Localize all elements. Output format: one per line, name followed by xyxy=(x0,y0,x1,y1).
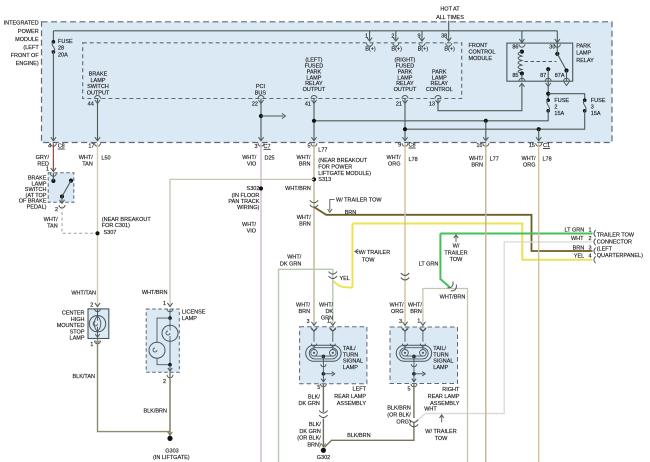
svg-text:87A: 87A xyxy=(555,73,565,79)
svg-text:TAIL/: TAIL/ xyxy=(343,346,356,352)
svg-text:BRN: BRN xyxy=(298,309,310,315)
svg-text:G302: G302 xyxy=(317,455,330,461)
svg-text:TOW: TOW xyxy=(362,257,376,263)
svg-text:(LEFT: (LEFT xyxy=(597,246,613,252)
svg-text:STOP: STOP xyxy=(70,329,85,335)
svg-text:WHT/: WHT/ xyxy=(386,155,401,161)
svg-text:WHT/: WHT/ xyxy=(297,215,312,221)
svg-text:POWER: POWER xyxy=(18,29,39,35)
svg-text:(NEAR BREAKOUT: (NEAR BREAKOUT xyxy=(318,158,368,164)
svg-text:CONTROL: CONTROL xyxy=(426,87,453,93)
svg-text:2: 2 xyxy=(588,236,591,242)
svg-text:LAMP: LAMP xyxy=(433,365,448,371)
svg-text:(OR BLK/: (OR BLK/ xyxy=(387,412,411,418)
svg-text:WHT/TAN: WHT/TAN xyxy=(71,290,96,296)
svg-text:S313: S313 xyxy=(318,177,331,183)
svg-text:BUS: BUS xyxy=(255,90,267,96)
svg-text:W/ TRAILER: W/ TRAILER xyxy=(425,429,456,435)
svg-text:YEL: YEL xyxy=(340,276,350,282)
svg-text:1: 1 xyxy=(163,301,166,307)
svg-text:L77: L77 xyxy=(318,147,327,153)
svg-text:9: 9 xyxy=(418,33,421,39)
svg-text:WHT/: WHT/ xyxy=(521,156,536,162)
svg-text:ORG: ORG xyxy=(523,162,536,168)
svg-text:WHT: WHT xyxy=(424,406,437,412)
svg-text:GRY/: GRY/ xyxy=(36,155,50,161)
svg-text:W/ TRAILER TOW: W/ TRAILER TOW xyxy=(336,198,382,204)
svg-text:1: 1 xyxy=(417,319,420,325)
svg-text:B(+): B(+) xyxy=(418,46,429,52)
svg-text:4: 4 xyxy=(48,143,51,149)
svg-text:15: 15 xyxy=(529,143,535,149)
svg-text:ORG): ORG) xyxy=(396,419,411,425)
svg-text:WHT/: WHT/ xyxy=(408,302,423,308)
svg-text:20A: 20A xyxy=(58,52,68,58)
svg-text:D25: D25 xyxy=(265,155,275,161)
svg-text:CONTROL: CONTROL xyxy=(469,50,496,56)
svg-text:LIFTGATE MODULE): LIFTGATE MODULE) xyxy=(318,171,371,177)
svg-text:BRN: BRN xyxy=(345,210,357,216)
svg-text:BRN: BRN xyxy=(410,309,422,315)
svg-text:16: 16 xyxy=(476,143,482,149)
svg-text:W/: W/ xyxy=(453,244,460,250)
svg-text:TURN: TURN xyxy=(343,352,358,358)
svg-text:L50: L50 xyxy=(101,155,110,161)
svg-text:VIO: VIO xyxy=(247,161,257,167)
svg-text:2: 2 xyxy=(55,207,58,213)
svg-text:3: 3 xyxy=(306,319,309,325)
svg-text:3: 3 xyxy=(588,246,591,252)
svg-text:TRAILER: TRAILER xyxy=(444,250,467,256)
svg-text:LAMP: LAMP xyxy=(182,316,197,322)
svg-text:5: 5 xyxy=(307,143,310,149)
svg-text:PEDAL): PEDAL) xyxy=(27,204,47,210)
svg-text:44: 44 xyxy=(88,101,94,107)
svg-text:RIGHT: RIGHT xyxy=(442,387,460,393)
svg-text:REAR LAMP: REAR LAMP xyxy=(428,394,460,400)
svg-text:15A: 15A xyxy=(591,111,601,117)
svg-text:(IN LIFTGATE): (IN LIFTGATE) xyxy=(153,455,190,461)
svg-text:CENTER: CENTER xyxy=(62,310,85,316)
svg-text:TOW: TOW xyxy=(450,257,464,263)
svg-text:3: 3 xyxy=(591,104,594,110)
svg-text:BRN: BRN xyxy=(299,222,311,228)
svg-text:B(+): B(+) xyxy=(391,46,402,52)
svg-text:FUSE: FUSE xyxy=(591,98,606,104)
svg-text:L78: L78 xyxy=(409,157,418,163)
svg-text:BRN): BRN) xyxy=(307,442,321,448)
svg-text:PAN TRACK: PAN TRACK xyxy=(228,199,259,205)
svg-text:FOR C301): FOR C301) xyxy=(102,223,130,229)
svg-text:38: 38 xyxy=(441,33,447,39)
svg-text:LAMP: LAMP xyxy=(91,78,106,84)
svg-text:1: 1 xyxy=(588,227,591,233)
svg-text:PARK: PARK xyxy=(576,43,591,49)
svg-text:LEFT: LEFT xyxy=(353,387,367,393)
svg-text:S307: S307 xyxy=(104,230,117,236)
svg-text:4: 4 xyxy=(588,254,591,260)
svg-text:(IN FLOOR: (IN FLOOR xyxy=(232,193,260,199)
svg-text:WHT/BRN: WHT/BRN xyxy=(142,290,168,296)
svg-text:86: 86 xyxy=(512,45,518,51)
svg-text:SIGNAL: SIGNAL xyxy=(343,359,363,365)
svg-text:5: 5 xyxy=(317,385,320,391)
svg-text:W/ TRAILER: W/ TRAILER xyxy=(359,250,390,256)
svg-text:MODULE: MODULE xyxy=(469,56,493,62)
svg-text:ORG: ORG xyxy=(391,309,404,315)
svg-text:BLK/TAN: BLK/TAN xyxy=(72,374,95,380)
svg-text:2: 2 xyxy=(554,104,557,110)
svg-text:(OR BLK/: (OR BLK/ xyxy=(297,436,321,442)
svg-text:BLK/BRN: BLK/BRN xyxy=(143,408,167,414)
svg-text:9: 9 xyxy=(398,142,401,148)
svg-text:C8: C8 xyxy=(409,142,416,148)
svg-text:BRAKE: BRAKE xyxy=(89,72,108,78)
svg-text:YEL: YEL xyxy=(574,254,584,260)
svg-text:OUTPUT: OUTPUT xyxy=(303,87,326,93)
svg-text:1: 1 xyxy=(46,166,49,172)
svg-text:BRN: BRN xyxy=(299,161,311,167)
svg-text:WHT/: WHT/ xyxy=(296,155,311,161)
svg-text:BLK/BRN: BLK/BRN xyxy=(347,433,371,439)
svg-text:FOR POWER: FOR POWER xyxy=(318,164,352,170)
svg-text:13: 13 xyxy=(429,101,435,107)
svg-text:INTEGRATED: INTEGRATED xyxy=(4,21,39,27)
svg-text:2: 2 xyxy=(90,302,93,308)
svg-text:WIRING): WIRING) xyxy=(237,205,259,211)
svg-text:WHT/: WHT/ xyxy=(287,254,302,260)
svg-text:15A: 15A xyxy=(554,111,564,117)
svg-text:TRAILER TOW: TRAILER TOW xyxy=(597,232,635,238)
svg-text:MODULE: MODULE xyxy=(15,37,39,43)
svg-text:TAIL/: TAIL/ xyxy=(433,346,446,352)
svg-text:BLK/BRN: BLK/BRN xyxy=(387,405,411,411)
svg-text:HIGH: HIGH xyxy=(71,317,85,323)
svg-text:BRN: BRN xyxy=(471,162,483,168)
svg-text:22: 22 xyxy=(252,101,258,107)
svg-text:SIGNAL: SIGNAL xyxy=(433,359,453,365)
svg-text:QUARTERPANEL): QUARTERPANEL) xyxy=(597,253,643,259)
svg-text:BLK/: BLK/ xyxy=(309,422,321,428)
svg-text:17: 17 xyxy=(88,143,94,149)
svg-text:DK GRN: DK GRN xyxy=(280,261,301,267)
svg-text:ASSEMBLY: ASSEMBLY xyxy=(337,401,367,407)
svg-text:FUSE: FUSE xyxy=(554,98,569,104)
svg-text:S302: S302 xyxy=(247,186,260,192)
svg-text:FRONT OF: FRONT OF xyxy=(11,53,40,59)
svg-text:C8: C8 xyxy=(58,143,65,149)
svg-text:WHT/BRN: WHT/BRN xyxy=(440,294,466,300)
svg-text:LAMP: LAMP xyxy=(576,51,591,57)
svg-text:DK GRN: DK GRN xyxy=(299,429,320,435)
svg-text:1: 1 xyxy=(327,319,330,325)
svg-text:PCI: PCI xyxy=(256,84,266,90)
svg-text:BRN: BRN xyxy=(573,246,585,252)
svg-text:FRONT: FRONT xyxy=(469,43,489,49)
svg-text:TAN: TAN xyxy=(82,161,93,167)
svg-text:LT GRN: LT GRN xyxy=(419,262,439,268)
svg-text:3: 3 xyxy=(399,319,402,325)
svg-text:B(+): B(+) xyxy=(365,46,376,52)
svg-text:BLK/: BLK/ xyxy=(308,394,320,400)
svg-text:LT GRN: LT GRN xyxy=(565,227,585,233)
svg-text:ALL TIMES: ALL TIMES xyxy=(436,15,464,21)
svg-text:WHT/: WHT/ xyxy=(79,155,94,161)
svg-text:TURN: TURN xyxy=(433,352,448,358)
svg-text:LAMP: LAMP xyxy=(343,365,358,371)
svg-text:TAN: TAN xyxy=(47,223,58,229)
svg-text:B(+): B(+) xyxy=(444,46,455,52)
svg-text:DK: DK xyxy=(325,309,333,315)
svg-text:41: 41 xyxy=(305,101,311,107)
svg-text:WHT/: WHT/ xyxy=(319,302,334,308)
svg-text:C7: C7 xyxy=(264,144,271,150)
svg-text:ORG: ORG xyxy=(388,161,401,167)
svg-text:WHT/: WHT/ xyxy=(389,302,404,308)
svg-text:OUTPUT: OUTPUT xyxy=(87,90,110,96)
svg-text:5: 5 xyxy=(407,386,410,392)
svg-text:FUSE: FUSE xyxy=(58,39,73,45)
svg-text:87: 87 xyxy=(540,73,546,79)
svg-text:G303: G303 xyxy=(165,449,178,455)
svg-text:85: 85 xyxy=(512,73,518,79)
svg-text:LICENSE: LICENSE xyxy=(182,310,206,316)
svg-text:(LEFT: (LEFT xyxy=(23,45,39,51)
svg-text:1: 1 xyxy=(90,342,93,348)
svg-text:3: 3 xyxy=(254,144,257,150)
svg-text:2: 2 xyxy=(163,379,166,385)
svg-text:CONNECTOR: CONNECTOR xyxy=(597,239,632,245)
svg-text:21: 21 xyxy=(396,101,402,107)
svg-text:L78: L78 xyxy=(543,156,552,162)
svg-text:C1: C1 xyxy=(543,143,550,149)
svg-text:WHT/: WHT/ xyxy=(242,222,257,228)
svg-text:1: 1 xyxy=(365,33,368,39)
svg-text:ENGINE): ENGINE) xyxy=(16,61,39,67)
svg-text:WHT/: WHT/ xyxy=(242,155,257,161)
svg-text:28: 28 xyxy=(58,46,64,52)
svg-text:2: 2 xyxy=(391,33,394,39)
svg-text:MOUNTED: MOUNTED xyxy=(57,323,85,329)
svg-text:VIO: VIO xyxy=(247,228,257,234)
svg-text:30: 30 xyxy=(549,45,555,51)
svg-text:(NEAR BREAKOUT: (NEAR BREAKOUT xyxy=(102,217,152,223)
svg-text:HOT AT: HOT AT xyxy=(440,6,460,12)
svg-text:OUTPUT: OUTPUT xyxy=(394,87,417,93)
svg-text:WHT/: WHT/ xyxy=(44,217,59,223)
svg-text:WHT/: WHT/ xyxy=(296,302,311,308)
svg-text:WHT/BRN: WHT/BRN xyxy=(285,186,311,192)
svg-text:SWITCH: SWITCH xyxy=(87,84,109,90)
svg-text:REAR LAMP: REAR LAMP xyxy=(334,394,366,400)
svg-text:DK GRN: DK GRN xyxy=(299,401,320,407)
svg-text:RELAY: RELAY xyxy=(576,58,594,64)
svg-text:LAMP: LAMP xyxy=(70,336,85,342)
svg-text:TOW: TOW xyxy=(435,436,449,442)
svg-text:L77: L77 xyxy=(490,156,499,162)
svg-text:WHT: WHT xyxy=(571,236,584,242)
svg-text:WHT/: WHT/ xyxy=(469,156,484,162)
